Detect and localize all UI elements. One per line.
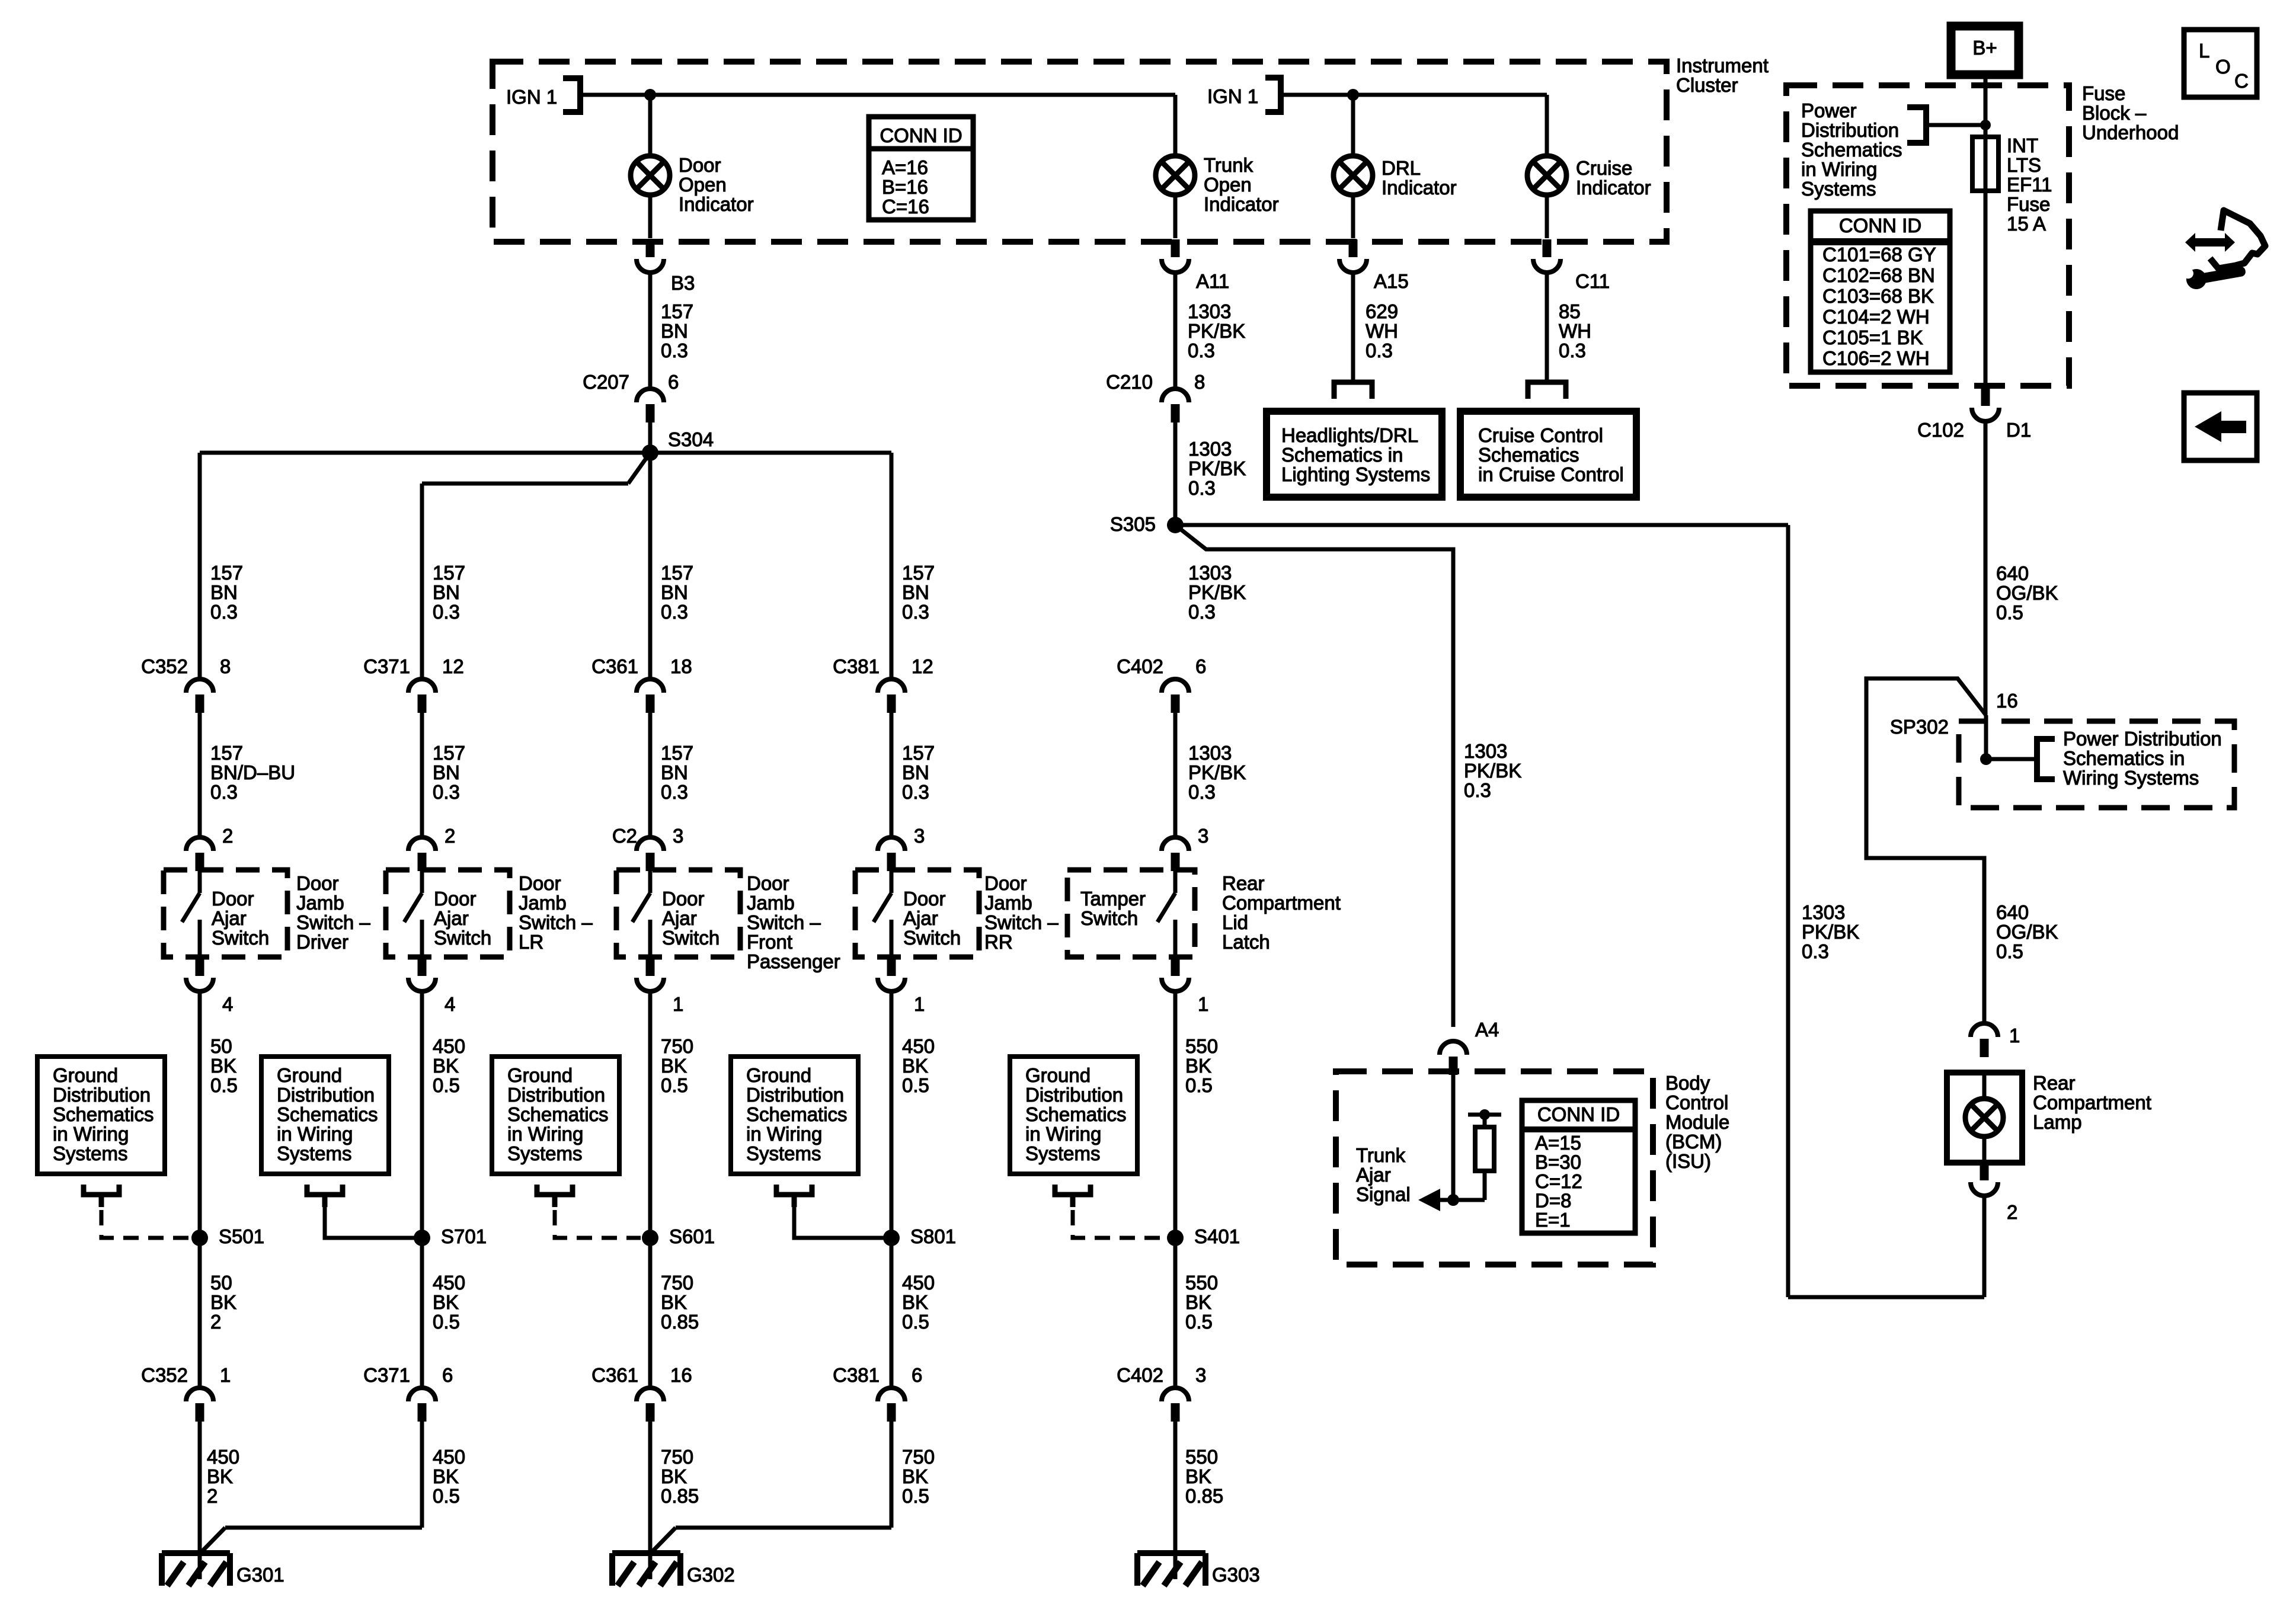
svg-text:4: 4: [445, 993, 455, 1015]
svg-text:157: 157: [210, 742, 243, 764]
svg-text:0.5: 0.5: [1996, 601, 2023, 623]
svg-text:750: 750: [661, 1446, 693, 1468]
svg-text:640: 640: [1996, 562, 2029, 584]
svg-text:Indicator: Indicator: [1204, 193, 1279, 215]
svg-text:PK/BK: PK/BK: [1188, 320, 1245, 342]
svg-text:0.3: 0.3: [1802, 940, 1829, 962]
svg-text:8: 8: [1194, 371, 1205, 393]
svg-text:629: 629: [1366, 300, 1398, 322]
svg-text:C101=68 GY: C101=68 GY: [1822, 244, 1936, 265]
svg-text:50: 50: [210, 1272, 232, 1294]
svg-text:2: 2: [222, 825, 233, 847]
svg-text:Ground: Ground: [53, 1064, 118, 1086]
svg-text:0.5: 0.5: [1996, 940, 2023, 962]
svg-text:in Wiring: in Wiring: [277, 1123, 353, 1145]
svg-text:50: 50: [210, 1035, 232, 1057]
svg-text:C106=2 WH: C106=2 WH: [1822, 347, 1930, 369]
svg-text:2: 2: [445, 825, 455, 847]
svg-text:Indicator: Indicator: [1382, 177, 1457, 199]
svg-text:550: 550: [1185, 1272, 1218, 1294]
svg-text:0.3: 0.3: [1188, 601, 1216, 623]
svg-text:157: 157: [210, 562, 243, 584]
svg-text:PK/BK: PK/BK: [1188, 581, 1246, 603]
svg-text:BN: BN: [661, 320, 688, 342]
svg-text:PK/BK: PK/BK: [1188, 457, 1246, 479]
svg-text:Rear: Rear: [2033, 1072, 2076, 1094]
svg-text:Switch: Switch: [662, 927, 720, 949]
svg-text:Compartment: Compartment: [1222, 892, 1341, 914]
svg-text:BK: BK: [661, 1055, 687, 1077]
svg-text:C=12: C=12: [1535, 1170, 1582, 1192]
svg-text:1: 1: [220, 1364, 231, 1386]
svg-text:in Cruise Control: in Cruise Control: [1478, 463, 1624, 485]
svg-text:0.3: 0.3: [433, 781, 460, 803]
svg-text:Ground: Ground: [746, 1064, 811, 1086]
svg-text:BK: BK: [902, 1465, 928, 1487]
svg-text:Jamb: Jamb: [747, 892, 795, 914]
svg-text:Lamp: Lamp: [2033, 1111, 2082, 1133]
svg-text:Systems: Systems: [746, 1142, 821, 1164]
svg-text:Power: Power: [1801, 100, 1857, 121]
svg-text:G302: G302: [687, 1564, 735, 1586]
svg-text:3: 3: [1198, 825, 1208, 847]
svg-text:OG/BK: OG/BK: [1996, 582, 2058, 604]
svg-text:12: 12: [442, 655, 464, 677]
svg-text:in Wiring: in Wiring: [1801, 158, 1877, 180]
svg-text:1303: 1303: [1188, 300, 1231, 322]
svg-text:Schematics: Schematics: [507, 1103, 609, 1125]
svg-text:Distribution: Distribution: [1025, 1084, 1123, 1106]
svg-text:RR: RR: [984, 931, 1013, 953]
svg-text:O: O: [2215, 56, 2231, 78]
svg-text:Door: Door: [903, 888, 946, 910]
svg-text:BK: BK: [902, 1291, 928, 1313]
svg-text:L: L: [2199, 40, 2209, 62]
svg-text:C402: C402: [1117, 1364, 1163, 1386]
svg-text:WH: WH: [1366, 320, 1398, 342]
svg-text:16: 16: [1996, 690, 2018, 712]
svg-text:Indicator: Indicator: [679, 193, 754, 215]
svg-text:0.85: 0.85: [1185, 1485, 1223, 1507]
svg-text:18: 18: [670, 655, 692, 677]
svg-text:Jamb: Jamb: [296, 892, 344, 914]
svg-text:A=15: A=15: [1535, 1132, 1581, 1154]
svg-text:Underhood: Underhood: [2082, 121, 2179, 143]
svg-text:C103=68 BK: C103=68 BK: [1822, 285, 1934, 307]
svg-text:1: 1: [673, 993, 683, 1015]
svg-text:Trunk: Trunk: [1204, 154, 1253, 176]
svg-text:C402: C402: [1117, 655, 1163, 677]
svg-text:C371: C371: [363, 655, 410, 677]
svg-text:0.5: 0.5: [433, 1311, 460, 1333]
svg-text:Distribution: Distribution: [277, 1084, 375, 1106]
svg-text:6: 6: [668, 371, 679, 393]
svg-text:157: 157: [433, 562, 465, 584]
svg-text:C207: C207: [583, 371, 629, 393]
svg-text:C381: C381: [833, 1364, 880, 1386]
svg-text:640: 640: [1996, 901, 2029, 923]
svg-text:6: 6: [1195, 655, 1206, 677]
svg-text:C104=2 WH: C104=2 WH: [1822, 306, 1930, 328]
svg-text:Switch: Switch: [1080, 907, 1138, 929]
svg-text:S501: S501: [219, 1225, 264, 1247]
svg-text:Front: Front: [747, 931, 792, 953]
svg-text:BN: BN: [661, 761, 688, 783]
svg-text:C2: C2: [612, 825, 637, 847]
svg-text:Module: Module: [1665, 1111, 1729, 1133]
svg-text:0.5: 0.5: [433, 1485, 460, 1507]
svg-text:BN/D–BU: BN/D–BU: [210, 761, 295, 783]
svg-text:C381: C381: [833, 655, 880, 677]
svg-text:BN: BN: [902, 761, 929, 783]
svg-text:S701: S701: [441, 1225, 487, 1247]
svg-text:C: C: [2234, 70, 2249, 92]
svg-text:A=16: A=16: [882, 156, 928, 178]
svg-text:BN: BN: [902, 581, 929, 603]
svg-text:0.5: 0.5: [902, 1074, 929, 1096]
svg-text:0.3: 0.3: [1559, 340, 1586, 361]
svg-text:Power Distribution: Power Distribution: [2063, 728, 2222, 750]
svg-text:450: 450: [902, 1272, 935, 1294]
svg-text:C210: C210: [1106, 371, 1153, 393]
svg-text:15 A: 15 A: [2007, 213, 2046, 235]
svg-text:550: 550: [1185, 1035, 1218, 1057]
svg-text:Fuse: Fuse: [2082, 82, 2125, 104]
svg-text:Switch –: Switch –: [984, 911, 1059, 933]
svg-text:Switch –: Switch –: [296, 911, 370, 933]
svg-text:157: 157: [902, 562, 935, 584]
svg-text:Door: Door: [662, 888, 705, 910]
svg-text:EF11: EF11: [2007, 174, 2052, 196]
svg-text:Trunk: Trunk: [1356, 1144, 1406, 1166]
svg-text:Compartment: Compartment: [2033, 1092, 2151, 1113]
svg-text:Passenger: Passenger: [747, 950, 840, 972]
svg-text:Schematics: Schematics: [53, 1103, 154, 1125]
svg-text:Switch –: Switch –: [519, 911, 593, 933]
svg-text:Distribution: Distribution: [53, 1084, 151, 1106]
svg-text:D=8: D=8: [1535, 1190, 1571, 1212]
svg-text:Body: Body: [1665, 1072, 1710, 1094]
svg-text:Ajar: Ajar: [1356, 1164, 1391, 1186]
svg-text:BK: BK: [433, 1465, 459, 1487]
svg-text:Lid: Lid: [1222, 911, 1248, 933]
svg-text:PK/BK: PK/BK: [1188, 761, 1246, 783]
svg-text:Schematics in: Schematics in: [2063, 747, 2185, 769]
svg-text:Distribution: Distribution: [746, 1084, 844, 1106]
svg-text:0.3: 0.3: [902, 601, 929, 623]
svg-text:0.3: 0.3: [1188, 781, 1216, 803]
svg-text:WH: WH: [1559, 320, 1591, 342]
svg-text:S305: S305: [1110, 513, 1156, 535]
svg-text:0.3: 0.3: [902, 781, 929, 803]
svg-text:550: 550: [1185, 1446, 1218, 1468]
svg-text:12: 12: [912, 655, 933, 677]
svg-text:2: 2: [210, 1311, 221, 1333]
svg-text:Signal: Signal: [1356, 1183, 1411, 1205]
svg-text:3: 3: [1195, 1364, 1206, 1386]
svg-text:BK: BK: [210, 1291, 236, 1313]
svg-text:157: 157: [661, 742, 693, 764]
svg-text:B3: B3: [671, 272, 695, 294]
svg-text:3: 3: [914, 825, 925, 847]
svg-text:Ajar: Ajar: [434, 907, 469, 929]
svg-text:0.3: 0.3: [433, 601, 460, 623]
svg-text:157: 157: [902, 742, 935, 764]
svg-text:B+: B+: [1972, 37, 1997, 59]
svg-text:Door: Door: [519, 872, 561, 894]
svg-text:0.3: 0.3: [210, 781, 238, 803]
svg-text:3: 3: [673, 825, 683, 847]
svg-text:C361: C361: [591, 1364, 638, 1386]
svg-text:1: 1: [2009, 1025, 2020, 1046]
svg-text:Distribution: Distribution: [1801, 119, 1899, 141]
svg-text:in Wiring: in Wiring: [507, 1123, 583, 1145]
svg-text:Switch: Switch: [212, 927, 269, 949]
svg-text:Systems: Systems: [507, 1142, 583, 1164]
svg-text:C102: C102: [1917, 419, 1964, 441]
svg-text:Systems: Systems: [1801, 178, 1876, 200]
svg-text:Cruise: Cruise: [1576, 157, 1632, 179]
svg-text:LTS: LTS: [2007, 154, 2041, 176]
svg-text:G301: G301: [236, 1564, 284, 1586]
svg-text:E=1: E=1: [1535, 1209, 1571, 1231]
svg-text:0.3: 0.3: [210, 601, 238, 623]
svg-text:PK/BK: PK/BK: [1464, 760, 1521, 782]
svg-text:Door: Door: [679, 154, 721, 176]
svg-text:6: 6: [442, 1364, 453, 1386]
svg-text:Switch: Switch: [434, 927, 491, 949]
svg-text:G303: G303: [1212, 1564, 1260, 1586]
svg-text:BK: BK: [661, 1465, 687, 1487]
svg-text:Ground: Ground: [277, 1064, 342, 1086]
svg-text:450: 450: [902, 1035, 935, 1057]
svg-text:BK: BK: [433, 1055, 459, 1077]
svg-text:4: 4: [222, 993, 233, 1015]
svg-text:750: 750: [661, 1272, 693, 1294]
svg-text:Door: Door: [434, 888, 477, 910]
svg-text:Systems: Systems: [277, 1142, 352, 1164]
svg-text:S601: S601: [669, 1225, 715, 1247]
svg-text:BK: BK: [1185, 1465, 1211, 1487]
svg-text:Control: Control: [1665, 1092, 1728, 1113]
svg-text:Ajar: Ajar: [903, 907, 938, 929]
svg-text:BN: BN: [661, 581, 688, 603]
svg-text:C352: C352: [141, 655, 188, 677]
svg-text:Cluster: Cluster: [1676, 74, 1738, 96]
svg-text:C105=1 BK: C105=1 BK: [1822, 327, 1923, 348]
svg-text:0.5: 0.5: [210, 1074, 238, 1096]
svg-text:Schematics: Schematics: [1025, 1103, 1127, 1125]
svg-text:CONN ID: CONN ID: [1839, 215, 1921, 236]
svg-text:C371: C371: [363, 1364, 410, 1386]
svg-text:Schematics: Schematics: [277, 1103, 378, 1125]
svg-text:Door: Door: [212, 888, 254, 910]
svg-text:IGN 1: IGN 1: [506, 86, 557, 108]
svg-text:0.3: 0.3: [1188, 477, 1216, 499]
svg-text:1: 1: [914, 993, 925, 1015]
svg-text:in Wiring: in Wiring: [53, 1123, 129, 1145]
svg-text:Jamb: Jamb: [984, 892, 1032, 914]
svg-text:(BCM): (BCM): [1665, 1131, 1722, 1153]
svg-text:0.3: 0.3: [1464, 779, 1491, 801]
svg-text:Door: Door: [747, 872, 789, 894]
svg-text:Ajar: Ajar: [662, 907, 697, 929]
svg-text:OG/BK: OG/BK: [1996, 921, 2058, 943]
svg-text:2: 2: [2007, 1201, 2017, 1223]
svg-text:D1: D1: [2006, 419, 2031, 441]
svg-text:Wiring Systems: Wiring Systems: [2063, 767, 2199, 789]
svg-text:BK: BK: [1185, 1291, 1211, 1313]
svg-text:750: 750: [902, 1446, 935, 1468]
svg-text:16: 16: [670, 1364, 692, 1386]
svg-text:Switch: Switch: [903, 927, 961, 949]
svg-text:0.3: 0.3: [661, 781, 688, 803]
svg-text:in Wiring: in Wiring: [746, 1123, 822, 1145]
svg-text:Schematics in: Schematics in: [1281, 444, 1403, 466]
svg-text:Fuse: Fuse: [2007, 193, 2050, 215]
svg-text:157: 157: [433, 742, 465, 764]
svg-text:0.5: 0.5: [902, 1311, 929, 1333]
svg-text:0.3: 0.3: [661, 340, 688, 361]
svg-text:BN: BN: [210, 581, 238, 603]
svg-text:Latch: Latch: [1222, 931, 1270, 953]
svg-text:S401: S401: [1194, 1225, 1240, 1247]
svg-text:0.5: 0.5: [661, 1074, 688, 1096]
svg-text:450: 450: [433, 1035, 465, 1057]
svg-text:A4: A4: [1475, 1019, 1499, 1041]
svg-text:450: 450: [207, 1446, 239, 1468]
svg-text:Distribution: Distribution: [507, 1084, 605, 1106]
svg-text:Cruise Control: Cruise Control: [1478, 424, 1603, 446]
svg-text:85: 85: [1559, 300, 1581, 322]
svg-text:750: 750: [661, 1035, 693, 1057]
svg-text:Jamb: Jamb: [519, 892, 567, 914]
svg-text:S304: S304: [668, 428, 714, 450]
svg-text:C352: C352: [141, 1364, 188, 1386]
svg-text:1303: 1303: [1464, 740, 1507, 762]
svg-text:Instrument: Instrument: [1676, 55, 1769, 76]
svg-text:C11: C11: [1575, 270, 1610, 292]
svg-text:Headlights/DRL: Headlights/DRL: [1281, 424, 1418, 446]
svg-text:1303: 1303: [1188, 742, 1232, 764]
svg-text:CONN ID: CONN ID: [1537, 1103, 1620, 1125]
svg-text:Rear: Rear: [1222, 872, 1265, 894]
svg-text:Open: Open: [679, 174, 727, 196]
svg-text:A11: A11: [1196, 270, 1229, 292]
svg-text:B=30: B=30: [1535, 1151, 1581, 1173]
svg-text:C361: C361: [591, 655, 638, 677]
svg-text:0.5: 0.5: [433, 1074, 460, 1096]
svg-text:Tamper: Tamper: [1080, 888, 1146, 910]
svg-text:8: 8: [220, 655, 231, 677]
svg-text:BK: BK: [210, 1055, 236, 1077]
svg-text:Ground: Ground: [507, 1064, 573, 1086]
svg-text:A15: A15: [1374, 270, 1409, 292]
svg-text:0.85: 0.85: [661, 1485, 699, 1507]
svg-text:BK: BK: [207, 1465, 233, 1487]
svg-text:Open: Open: [1204, 174, 1252, 196]
svg-text:C=16: C=16: [882, 196, 929, 217]
svg-text:0.3: 0.3: [1366, 340, 1393, 361]
svg-text:BK: BK: [1185, 1055, 1211, 1077]
svg-text:Systems: Systems: [53, 1142, 128, 1164]
svg-text:1303: 1303: [1802, 901, 1845, 923]
svg-text:CONN ID: CONN ID: [880, 124, 962, 146]
svg-text:DRL: DRL: [1382, 157, 1421, 179]
svg-text:Schematics: Schematics: [1801, 139, 1902, 161]
svg-text:BK: BK: [902, 1055, 928, 1077]
svg-text:(ISU): (ISU): [1665, 1150, 1711, 1172]
svg-text:1: 1: [1198, 993, 1208, 1015]
svg-text:Schematics: Schematics: [1478, 444, 1579, 466]
svg-text:Ajar: Ajar: [212, 907, 247, 929]
svg-text:Door: Door: [296, 872, 339, 894]
svg-text:0.85: 0.85: [661, 1311, 699, 1333]
svg-text:BN: BN: [433, 581, 460, 603]
svg-text:C102=68 BN: C102=68 BN: [1822, 264, 1935, 286]
svg-text:0.5: 0.5: [902, 1485, 929, 1507]
svg-text:Switch –: Switch –: [747, 911, 821, 933]
svg-text:Block –: Block –: [2082, 102, 2147, 124]
svg-text:0.5: 0.5: [1185, 1311, 1213, 1333]
svg-text:BK: BK: [433, 1291, 459, 1313]
svg-text:PK/BK: PK/BK: [1802, 921, 1859, 943]
svg-text:157: 157: [661, 562, 693, 584]
svg-text:450: 450: [433, 1272, 465, 1294]
svg-text:LR: LR: [519, 931, 543, 953]
svg-text:1303: 1303: [1188, 562, 1232, 584]
svg-text:in Wiring: in Wiring: [1025, 1123, 1101, 1145]
svg-text:Ground: Ground: [1025, 1064, 1091, 1086]
svg-text:IGN 1: IGN 1: [1207, 85, 1258, 107]
svg-text:SP302: SP302: [1890, 716, 1949, 738]
svg-text:Door: Door: [984, 872, 1027, 894]
svg-text:Indicator: Indicator: [1576, 177, 1651, 199]
svg-text:Driver: Driver: [296, 931, 348, 953]
svg-text:0.5: 0.5: [1185, 1074, 1213, 1096]
svg-text:S801: S801: [910, 1225, 956, 1247]
svg-text:450: 450: [433, 1446, 465, 1468]
svg-text:BN: BN: [433, 761, 460, 783]
svg-text:0.3: 0.3: [661, 601, 688, 623]
svg-text:157: 157: [661, 300, 693, 322]
svg-text:B=16: B=16: [882, 176, 928, 198]
svg-text:Lighting Systems: Lighting Systems: [1281, 463, 1430, 485]
svg-text:INT: INT: [2007, 135, 2038, 156]
svg-text:BK: BK: [661, 1291, 687, 1313]
svg-text:1303: 1303: [1188, 438, 1232, 460]
svg-text:0.3: 0.3: [1188, 340, 1215, 361]
svg-text:Schematics: Schematics: [746, 1103, 848, 1125]
svg-text:2: 2: [207, 1485, 218, 1507]
svg-text:6: 6: [912, 1364, 922, 1386]
svg-text:Systems: Systems: [1025, 1142, 1101, 1164]
